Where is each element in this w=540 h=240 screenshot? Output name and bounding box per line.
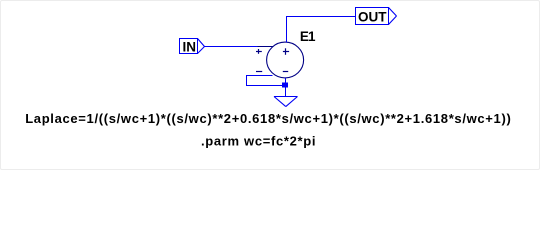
wire E1 top to OUT (286, 16, 356, 42)
pin stub plus input of E1 (258, 46, 274, 48)
svg-text:E1: E1 (300, 29, 316, 44)
svg-text:OUT: OUT (358, 9, 387, 24)
ground (274, 97, 298, 107)
svg-text:Laplace=1/((s/wc+1)*((s/wc)**2: Laplace=1/((s/wc+1)*((s/wc)**2+0.618*s/w… (25, 111, 511, 126)
svg-text:.parm wc=fc*2*pi: .parm wc=fc*2*pi (201, 133, 316, 148)
E1 outer plus (control + pin) (256, 49, 262, 54)
port IN (180, 38, 205, 54)
E1 inner minus (283, 71, 288, 73)
junction dot (282, 83, 288, 88)
voltage source body E1 (circle) (267, 42, 304, 78)
wire IN to E1 plus input (205, 46, 258, 48)
port OUT (356, 7, 397, 25)
E1 inner plus (283, 48, 289, 55)
wire E1 control minus loop to ground node (247, 76, 286, 86)
wire E1 bottom to ground node (285, 78, 287, 97)
svg-text:IN: IN (182, 39, 196, 54)
E1 outer minus (control - pin) (256, 71, 262, 73)
